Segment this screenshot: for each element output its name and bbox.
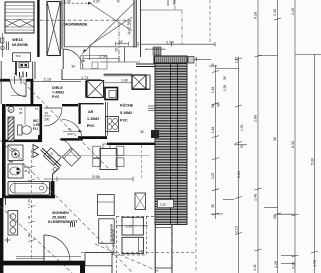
WC right wall [40, 106, 43, 142]
svg-text:1.15: 1.15 [27, 199, 31, 205]
WC bottom wall [2, 140, 42, 143]
upper right wall [140, 0, 142, 57]
dim 1.10 arrows [116, 225, 148, 227]
dark window post [151, 130, 159, 138]
diagonal door leaf [43, 148, 61, 166]
labels 50 62 [116, 43, 129, 45]
dining table [100, 149, 117, 170]
kitchen top wall [104, 73, 132, 75]
svg-text:38: 38 [211, 204, 215, 208]
svg-text:62: 62 [119, 40, 123, 44]
interior dim chain [31, 150, 33, 258]
long diagonal with arrow [82, 2, 135, 54]
svg-text:NI.55/3B: NI.55/3B [12, 42, 28, 47]
small circle fixture [53, 168, 57, 172]
svg-text:5.19M2: 5.19M2 [120, 111, 132, 115]
door stair-hall to hall [63, 49, 83, 69]
svg-text:2.19: 2.19 [235, 226, 239, 233]
svg-text:70: 70 [45, 112, 49, 116]
svg-text:45: 45 [27, 170, 31, 174]
triple tick marks [71, 222, 75, 227]
svg-text:4.20: 4.20 [93, 0, 100, 3]
exterior wall hatched column [155, 64, 187, 225]
AR top wall [78, 103, 103, 105]
dim 2.50 [83, 58, 119, 60]
dim chain column B x238.5 [223, 57, 247, 273]
kitchen sink cabinet [105, 88, 118, 100]
svg-text:PVC: PVC [87, 124, 95, 128]
stairwell outline [5, 2, 34, 33]
left edge symbols [1, 33, 5, 57]
svg-text:1.50: 1.50 [160, 203, 166, 207]
svg-text:90: 90 [72, 65, 76, 69]
svg-text:2.86: 2.86 [254, 115, 258, 122]
svg-text:1.73: 1.73 [81, 76, 88, 80]
cabinet vertical with label [99, 219, 115, 244]
svg-text:95: 95 [27, 233, 31, 237]
wardrobe box entry [81, 56, 108, 70]
svg-text:5.00: 5.00 [311, 158, 315, 165]
diagonal door arc [59, 139, 72, 150]
svg-text:4.45: 4.45 [291, 8, 295, 15]
valve symbols [33, 145, 39, 151]
horizontal dashed midline [40, 19, 134, 21]
svg-text:57: 57 [35, 107, 39, 111]
stove [106, 117, 119, 132]
dashed boundary line [195, 57, 197, 273]
svg-text:15: 15 [211, 63, 215, 67]
svg-text:4.25: 4.25 [292, 262, 296, 269]
corridor bottom wall [61, 138, 83, 140]
D circle symbol [8, 107, 14, 113]
chairs [93, 146, 101, 158]
dim 3.56 [44, 178, 133, 180]
toilet [18, 125, 23, 135]
svg-text:1.48: 1.48 [211, 127, 215, 133]
svg-text:2.50: 2.50 [99, 54, 108, 59]
svg-text:7.40M2: 7.40M2 [52, 91, 64, 95]
svg-text:1.19M2: 1.19M2 [87, 117, 99, 121]
dim line C x258 [255, 0, 278, 273]
counter edge [105, 102, 107, 136]
svg-text:KÜCHE: KÜCHE [120, 103, 134, 108]
terrace right wall [133, 0, 135, 48]
svg-text:1.18: 1.18 [211, 87, 215, 93]
svg-text:KLEBEPARKETT: KLEBEPARKETT [48, 220, 78, 224]
svg-text:200: 200 [68, 132, 73, 136]
stair treads [5, 6, 34, 31]
svg-text:2.19: 2.19 [44, 77, 53, 82]
chimney X box [87, 81, 104, 98]
svg-text:50: 50 [115, 48, 119, 52]
diagonal wall [41, 148, 62, 181]
svg-text:38: 38 [140, 130, 144, 134]
svg-text:2.24: 2.24 [237, 171, 241, 178]
dash-dot vertical [174, 0, 176, 10]
svg-text:BALKONTUER VERGL.: BALKONTUER VERGL. [145, 48, 167, 51]
kitchen bottom wall [107, 143, 155, 145]
armchair rotated [62, 148, 80, 166]
dashed horizontal bottom [81, 252, 196, 254]
dim chain x25 [24, 104, 26, 125]
dashed roof diagonals [14, 73, 110, 170]
svg-text:DACHTERRASSE: DACHTERRASSE [64, 22, 88, 26]
svg-text:PVC: PVC [52, 95, 60, 99]
svg-text:1.80: 1.80 [121, 79, 128, 83]
entry closet lines [32, 62, 34, 80]
WC left wall [2, 104, 6, 142]
terrace left wall [61, 0, 63, 49]
svg-text:4.75: 4.75 [313, 260, 317, 267]
door anschlag marks [20, 72, 27, 78]
left wall bottom [0, 198, 3, 273]
svg-text:38: 38 [273, 137, 277, 141]
svg-text:1.03: 1.03 [211, 173, 215, 179]
svg-text:WOHNEN: WOHNEN [52, 211, 69, 215]
svg-text:FLI: FLI [33, 127, 38, 131]
svg-text:38: 38 [223, 76, 227, 80]
svg-text:2.54: 2.54 [166, 39, 175, 44]
wall right of stairs [37, 0, 39, 57]
svg-text:25.26M2: 25.26M2 [52, 216, 66, 220]
svg-text:1.48: 1.48 [273, 9, 277, 16]
shaft hatched [8, 117, 14, 141]
roof slope convergence lines [89, 4, 132, 46]
dim 2.19 [33, 81, 81, 83]
washing machine [8, 145, 23, 161]
wall below column [154, 225, 156, 273]
bath right wall [51, 181, 55, 197]
bathtub [8, 181, 50, 195]
doormat box [13, 53, 31, 62]
terrace bottom edge [64, 46, 136, 48]
window pier X box [132, 75, 146, 89]
dim chain column A x215 [198, 60, 239, 220]
svg-text:600: 600 [12, 147, 17, 151]
bath left wall [2, 142, 6, 198]
hall top wall [0, 79, 10, 82]
svg-text:6.30: 6.30 [291, 141, 295, 148]
WC top wall [6, 104, 42, 106]
AR left wall [79, 103, 81, 124]
svg-text:1.28: 1.28 [223, 85, 227, 91]
svg-text:AR: AR [88, 110, 94, 114]
window sill tick marks [148, 106, 155, 110]
stairhall door lines [6, 42, 8, 51]
svg-text:38: 38 [273, 215, 277, 219]
balcony door arc [44, 235, 70, 261]
svg-text:1.51: 1.51 [240, 124, 244, 131]
sofa square [98, 195, 115, 216]
svg-text:1.10: 1.10 [126, 225, 133, 229]
svg-text:92: 92 [27, 215, 31, 219]
dim 2.54 [140, 43, 215, 45]
svg-text:3.56: 3.56 [92, 174, 101, 179]
entry door arc [11, 81, 27, 97]
svg-text:D: D [9, 108, 12, 113]
elevator shaft X [47, 2, 60, 56]
svg-text:6.28: 6.28 [254, 12, 258, 19]
dashed overhead box [116, 216, 146, 255]
left facade line [0, 61, 2, 104]
svg-text:DIELE: DIELE [52, 86, 63, 90]
svg-text:1.20: 1.20 [64, 0, 71, 4]
svg-text:90: 90 [82, 59, 86, 63]
bottom wall corner down [80, 261, 85, 273]
TV cabinet [135, 193, 146, 210]
svg-text:DACHSCHRAEGE: DACHSCHRAEGE [112, 229, 116, 255]
svg-text:90: 90 [240, 144, 244, 148]
wall stub left of window [136, 63, 155, 65]
bottom wall [0, 261, 81, 266]
top dashed line and labels [59, 2, 92, 4]
svg-text:A=2.38: A=2.38 [127, 20, 132, 34]
svg-text:4.11: 4.11 [253, 264, 257, 271]
wall x30 [31, 79, 34, 105]
kitchenette counter [8, 211, 18, 236]
dashed partition line kitchen-living [141, 145, 143, 179]
top edge tick marks [167, 0, 169, 6]
bath bottom wall [2, 196, 55, 199]
svg-text:200: 200 [44, 118, 50, 122]
WC lower corner wall [38, 135, 42, 142]
svg-text:PVC: PVC [120, 119, 128, 123]
washbasin [8, 164, 23, 178]
dim 1.73 [62, 79, 101, 81]
pier hatch [153, 47, 161, 55]
WC door arc [44, 107, 62, 109]
svg-text:700: 700 [16, 54, 21, 58]
window assembly dark bar [154, 56, 187, 63]
svg-text:95: 95 [19, 111, 23, 115]
corridor door dim arrow [79, 130, 83, 132]
svg-text:38: 38 [217, 103, 221, 107]
svg-text:1.25: 1.25 [274, 261, 278, 268]
svg-text:1.48: 1.48 [254, 194, 258, 201]
dim line F x314.6 [311, 54, 318, 273]
dim line D x277.5 [264, 0, 295, 273]
stair cross band [5, 20, 34, 28]
corridor door arc [62, 120, 82, 140]
skylight boxes [122, 217, 143, 235]
dim line E x295 [281, 0, 321, 273]
svg-text:38: 38 [211, 104, 215, 108]
vertical dash-dot [118, 23, 120, 63]
